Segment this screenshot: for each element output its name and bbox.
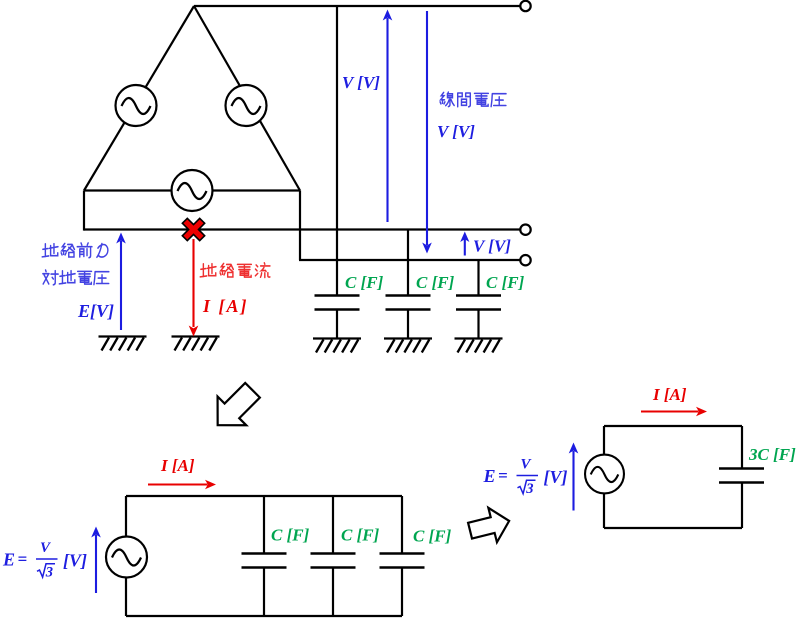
- label 地絡電流 (red): [200, 263, 270, 278]
- wire: drop from top phase to C1: [336, 6, 338, 296]
- svg-text:C [F]: C [F]: [416, 273, 455, 292]
- wire: single-cap circuit top: [604, 425, 742, 427]
- wire: right vertex down: [299, 191, 301, 261]
- terminal: bottom right open circle: [520, 255, 530, 265]
- arrow: E (blue up) equivalent circuit: [91, 527, 101, 594]
- ground under E arrow: [99, 337, 147, 351]
- wire: left vertex down: [83, 191, 85, 231]
- svg-text:C [F]: C [F]: [271, 526, 310, 545]
- wire: C4 down: [263, 568, 265, 617]
- ground at fault point: [172, 337, 220, 351]
- svg-text:=: =: [18, 550, 28, 569]
- label 地絡前の (blue): [42, 243, 108, 258]
- label 線間電圧 (line voltage, blue): [440, 92, 506, 107]
- wire: right side upper to C6: [401, 496, 403, 554]
- wire: drop from bottom phase to C3: [477, 260, 479, 296]
- capacitor C5: [311, 554, 356, 568]
- ac source VS2 (right side of delta): [226, 85, 267, 126]
- terminal: middle right open circle: [520, 225, 530, 235]
- svg-text:E[V]: E[V]: [77, 301, 114, 321]
- label E = V/sqrt3 [V] equivalent circuit: [2, 540, 87, 581]
- arrow: line voltage V down (blue tall, right): [422, 11, 432, 254]
- capacitor C1: [315, 296, 360, 310]
- wire: equivalent circuit top: [126, 495, 402, 497]
- wire: bottom phase to terminal: [299, 259, 521, 261]
- wire: delta left side: [84, 6, 194, 191]
- wire: equivalent circuit bottom: [126, 615, 402, 617]
- wire: 3C cap down: [741, 483, 743, 529]
- svg-text:V [V]: V [V]: [437, 122, 475, 141]
- arrow: small V up between phase lines: [460, 232, 469, 256]
- capacitor 3C: [719, 469, 764, 483]
- wire: equivalent circuit left: [125, 496, 127, 616]
- wire: drop to C5: [332, 496, 334, 554]
- wire: C2 to ground: [407, 310, 409, 340]
- wire: drop from middle phase to C2: [407, 230, 409, 296]
- block arrow pointing down-left: [203, 376, 267, 440]
- wire: delta right side: [194, 6, 300, 191]
- arrow: current I (red, right) single-cap circuit: [641, 407, 707, 417]
- ground under C3: [455, 339, 503, 353]
- svg-text:3: 3: [45, 565, 53, 581]
- fault mark X: [187, 223, 199, 235]
- svg-text:C [F]: C [F]: [486, 273, 525, 292]
- svg-text:I [A]: I [A]: [202, 296, 249, 316]
- svg-text:C [F]: C [F]: [341, 526, 380, 545]
- svg-text:[V]: [V]: [63, 551, 87, 571]
- svg-text:I [A]: I [A]: [160, 456, 195, 475]
- label E = V/sqrt3 [V] single-cap circuit: [483, 457, 568, 498]
- svg-text:I [A]: I [A]: [652, 385, 687, 404]
- terminal: top right open circle: [520, 1, 530, 11]
- ac source VS1 (left side of delta): [116, 85, 157, 126]
- capacitor C3: [456, 296, 501, 310]
- svg-text:V: V: [40, 540, 52, 556]
- wire: C5 down: [332, 568, 334, 617]
- wire: drop to C4: [263, 496, 265, 554]
- wire: C3 to ground: [477, 310, 479, 340]
- wire: top phase from delta apex to right terminal: [194, 5, 521, 7]
- svg-text:E: E: [2, 550, 15, 570]
- arrow: V up (blue tall, left): [383, 10, 393, 223]
- wire: right side upper to 3C cap: [741, 426, 743, 469]
- wire: single-cap circuit left: [603, 426, 605, 528]
- capacitor C6: [380, 554, 425, 568]
- wire: delta base: [84, 189, 300, 191]
- capacitor C4: [242, 554, 287, 568]
- ground under C1: [313, 339, 361, 353]
- ac source VS4 (equivalent circuit): [106, 537, 147, 578]
- wire: middle phase to terminal: [84, 228, 521, 230]
- svg-text:3C [F]: 3C [F]: [748, 445, 796, 464]
- wire: C6 down: [401, 568, 403, 617]
- svg-text:C [F]: C [F]: [413, 527, 452, 546]
- wire: single-cap circuit bottom: [604, 527, 742, 529]
- label 対地電圧 (blue): [43, 270, 109, 285]
- svg-text:C [F]: C [F]: [345, 273, 384, 292]
- arrow: current I (red, right) equivalent circuit: [148, 480, 216, 490]
- capacitor C2: [386, 296, 431, 310]
- block arrow pointing right: [466, 504, 514, 548]
- wire: C1 to ground: [336, 310, 338, 340]
- arrow: phase-to-ground voltage E (blue, up): [116, 233, 126, 331]
- arrow: E (blue up) single-cap circuit: [569, 443, 579, 511]
- svg-text:V [V]: V [V]: [342, 73, 380, 92]
- arrow: ground-fault current (red, down): [189, 239, 199, 337]
- svg-text:V [V]: V [V]: [473, 237, 511, 256]
- ac source VS3 (bottom of delta): [172, 170, 213, 211]
- ground under C2: [384, 339, 432, 353]
- ac source VS5 (single-cap circuit): [585, 455, 624, 494]
